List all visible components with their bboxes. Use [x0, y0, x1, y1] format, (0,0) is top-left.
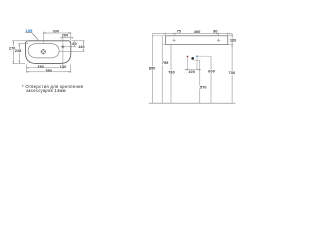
- svg-text:140: 140: [78, 45, 85, 49]
- top dim arrows: [164, 33, 230, 34]
- svg-text:400: 400: [194, 30, 201, 34]
- fixing hole crosses: [172, 39, 220, 42]
- dim line 795: [161, 36, 163, 103]
- dim 80 right side: [65, 41, 77, 47]
- svg-text:100: 100: [188, 70, 195, 74]
- dim 780 extension: [162, 44, 171, 46]
- svg-text:228: 228: [15, 49, 22, 53]
- dim 200: [61, 32, 74, 45]
- svg-text:200: 200: [62, 33, 69, 37]
- tap hole cross: [61, 45, 65, 49]
- dim line 600: [210, 56, 212, 103]
- dim line 780: [170, 45, 172, 104]
- dim line 730 (long right vertical): [231, 34, 233, 104]
- dim 120 arrows: [232, 34, 233, 47]
- dim 550 bottom: [26, 49, 70, 73]
- svg-text:795: 795: [162, 61, 169, 65]
- svg-text:570: 570: [200, 86, 207, 90]
- washbasin outer rim outline: [26, 41, 71, 64]
- svg-text:120: 120: [230, 39, 237, 43]
- hot water supply (red dot): [187, 56, 189, 58]
- svg-text:600: 600: [208, 70, 215, 74]
- svg-text:330: 330: [53, 29, 60, 33]
- top dim ticks: [166, 33, 228, 36]
- svg-text:195: 195: [26, 28, 34, 33]
- dim 380 bottom: [26, 67, 63, 68]
- floor line: [149, 102, 236, 104]
- dim 330: [43, 32, 70, 43]
- svg-text:550: 550: [46, 69, 53, 73]
- dim line 850 (long left vertical): [152, 34, 154, 104]
- svg-text:380: 380: [37, 65, 44, 69]
- dim line 570: [199, 60, 201, 103]
- cold water supply (blue dot): [196, 55, 198, 57]
- svg-text:80: 80: [72, 42, 76, 46]
- svg-text:аксессуаров 14мм: аксессуаров 14мм: [26, 88, 65, 93]
- drain (black dot): [191, 57, 194, 60]
- svg-text:780: 780: [168, 71, 175, 75]
- inner basin bowl: [28, 44, 59, 58]
- dim 228 left: [18, 44, 28, 64]
- dim 100 between supply points: [185, 57, 202, 70]
- svg-text:80: 80: [213, 30, 217, 34]
- dim 120 extension lines: [228, 36, 233, 45]
- top dim line 75/400/80: [153, 33, 233, 35]
- basin front rect: [166, 36, 228, 45]
- dim 140 right side: [59, 41, 84, 52]
- svg-text:850: 850: [149, 66, 156, 70]
- svg-text:730: 730: [229, 71, 236, 75]
- rim level extension line: [153, 35, 166, 37]
- svg-text:75: 75: [177, 30, 181, 34]
- dim 270 left: [12, 41, 26, 64]
- drain hole: [41, 49, 46, 54]
- callout 195 leader: [25, 33, 37, 41]
